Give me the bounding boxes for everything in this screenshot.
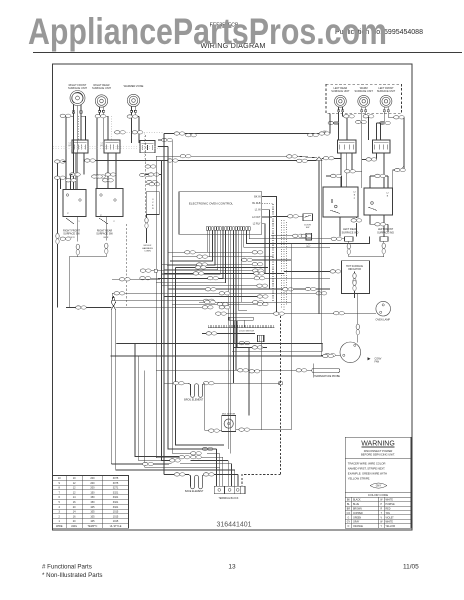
- svg-text:NAMED FIRST, STRIPE NEXT.: NAMED FIRST, STRIPE NEXT.: [348, 467, 386, 471]
- wires warm unit: [361, 112, 363, 122]
- wire to oven lamp: [216, 313, 376, 315]
- connector under B4: [375, 223, 386, 226]
- wire fan left: [321, 354, 340, 356]
- wire right vertical x400: [403, 117, 405, 166]
- dotted wire x111: [111, 116, 113, 140]
- dotted wire x144: [144, 134, 146, 160]
- dotted harness bundle right of EOC: [281, 220, 283, 308]
- wire S4 to B3: [346, 153, 348, 187]
- svg-text:3321: 3321: [113, 496, 119, 499]
- junction node broil: [279, 382, 282, 385]
- wire S3 right lower to trunk: [158, 146, 168, 148]
- svg-text:AppliancePartsPros.com: AppliancePartsPros.com: [28, 10, 387, 52]
- svg-text:BLACK: BLACK: [353, 499, 361, 502]
- svg-text:150: 150: [90, 501, 95, 504]
- dotted wire x78: [78, 116, 80, 140]
- bus row y256: [172, 256, 273, 258]
- bus row y259: [247, 259, 291, 261]
- door switch connector: [288, 215, 299, 218]
- connector bus264 b: [197, 263, 208, 266]
- warm surface unit element: [358, 95, 370, 107]
- wire TB drops: [215, 449, 217, 470]
- broil element: [189, 383, 191, 395]
- connector under S2 A: [95, 175, 106, 178]
- faint dotted guide lines: [53, 146, 160, 148]
- connector under S2 B: [105, 173, 116, 176]
- wire x135 drop: [135, 344, 179, 457]
- svg-text:105: 105: [90, 520, 95, 523]
- connector lower left: [76, 306, 87, 309]
- connector under B2 vertical: [105, 217, 107, 241]
- svg-text:GREEN: GREEN: [353, 517, 362, 519]
- svg-text:L1 IN: L1 IN: [255, 209, 261, 212]
- wire lower left horizontal: [66, 307, 111, 309]
- svg-text:BL DLB: BL DLB: [252, 202, 261, 205]
- connector under B1 vertical: [77, 217, 79, 242]
- connector bake left: [174, 473, 185, 476]
- svg-text:TEMP°C: TEMP°C: [88, 525, 98, 528]
- connector bus289 a: [205, 288, 216, 291]
- connector bus293 right: [316, 292, 327, 295]
- convection fan motor: [340, 342, 361, 363]
- bus row y273: [164, 272, 284, 274]
- svg-text:O: O: [348, 526, 350, 528]
- connector run B: [186, 134, 197, 137]
- long run y355: [111, 355, 325, 357]
- wire y158 to S4 drop: [322, 158, 341, 160]
- warmer zone element: [127, 94, 139, 106]
- right trunk x319: [318, 161, 320, 314]
- connector bottom f: [191, 452, 202, 455]
- connector warm B: [356, 120, 367, 123]
- svg-text:AWG: AWG: [71, 525, 77, 528]
- wire probe feed: [164, 369, 312, 371]
- wire EOC L2 RLY: [262, 224, 265, 274]
- svg-text:3075: 3075: [113, 477, 119, 480]
- svg-text:200: 200: [90, 477, 95, 480]
- wire broil feed left: [164, 382, 168, 384]
- connector bus289 b: [283, 288, 294, 291]
- EOC pin drop wires long: [227, 230, 229, 449]
- wires left front unit: [383, 112, 385, 123]
- color code table: [345, 496, 411, 498]
- wire x110 drop: [110, 310, 112, 465]
- connector bus289: [305, 287, 316, 290]
- wire y474 run: [210, 473, 239, 475]
- connector S1 lower: [55, 176, 66, 179]
- long run y370 thick: [156, 369, 164, 371]
- connector run A: [174, 132, 185, 135]
- left front indicator connector vertical: [383, 241, 385, 243]
- svg-text:DOOR: DOOR: [304, 225, 311, 227]
- connector x154 C: [149, 183, 160, 186]
- connector dotted run a: [115, 131, 126, 134]
- svg-text:TRACER WIRE: WIRE COLOR: TRACER WIRE: WIRE COLOR: [348, 462, 386, 466]
- connector B1 bottom left: [56, 233, 59, 244]
- connector y156 mid: [180, 155, 191, 158]
- svg-text:BLUE: BLUE: [353, 504, 359, 506]
- svg-text:COPPER: COPPER: [353, 513, 363, 515]
- bus row y285: [161, 285, 268, 287]
- connector left rear B: [328, 121, 339, 124]
- hot surface indicator connector: [354, 272, 356, 274]
- wire EOC L2 OUT: [262, 216, 288, 219]
- svg-text:TAN: TAN: [386, 512, 391, 515]
- svg-text:GY: GY: [347, 522, 351, 524]
- switch S3 warmer: [140, 141, 155, 153]
- bus row y304: [172, 303, 268, 305]
- connector S3 right: [162, 138, 173, 141]
- connector bus300: [203, 299, 214, 302]
- left rear indicator lamp: [345, 237, 354, 242]
- trunk wire x172: [172, 257, 192, 454]
- junction arrow right runs: [316, 157, 322, 161]
- svg-text:VIOLET: VIOLET: [386, 517, 395, 519]
- connector bus270 left: [140, 269, 151, 272]
- svg-text:316441401: 316441401: [217, 521, 252, 528]
- wire S2 bottom leads: [107, 153, 109, 189]
- switch S4 left rear: [338, 140, 357, 153]
- svg-text:L2 OUT: L2 OUT: [252, 216, 261, 219]
- svg-text:RED: RED: [386, 508, 391, 510]
- connector left front B: [380, 121, 391, 124]
- temperature probe: [312, 364, 314, 378]
- connector left rear A: [344, 115, 355, 118]
- trunk x291 right: [290, 252, 292, 429]
- svg-text:105: 105: [90, 511, 95, 514]
- svg-text:TERMINAL BLOCK: TERMINAL BLOCK: [219, 497, 239, 500]
- svg-text:105: 105: [90, 515, 95, 518]
- right rear surface switch B2: [96, 189, 123, 217]
- wire stub y184: [146, 183, 160, 185]
- wires left rear unit: [338, 112, 340, 123]
- connector lock a: [239, 341, 250, 344]
- connector oven lamp: [334, 312, 345, 315]
- connector right front unit: [60, 114, 71, 117]
- connector bus270 right: [253, 269, 264, 272]
- connector bus273 a: [193, 272, 204, 275]
- bus row y293: [112, 292, 325, 294]
- connector bus307 b: [219, 306, 230, 309]
- svg-text:GRAY: GRAY: [353, 521, 360, 524]
- warning box: [345, 437, 411, 528]
- connector left of B4: [375, 174, 386, 177]
- left rear surface switch B3: [323, 187, 358, 217]
- switch S1 right front: [72, 140, 88, 153]
- trunk wire x167: [168, 252, 202, 449]
- connector bus279: [119, 278, 130, 281]
- svg-text:SURFACE SW: SURFACE SW: [96, 233, 113, 236]
- wire S1 to B1 left: [60, 178, 62, 189]
- connector bus304 b: [217, 302, 228, 305]
- dotted run y132: [114, 131, 164, 133]
- wire x116 hookup: [110, 355, 112, 357]
- bus row y270: [146, 270, 262, 272]
- trunk wire x156: [156, 156, 179, 457]
- wire horizontal y160 run: [95, 160, 300, 162]
- connector y160 right: [297, 159, 308, 162]
- svg-text:3321: 3321: [113, 491, 119, 494]
- connector y160 mid: [167, 159, 178, 162]
- connector bus293 mid: [219, 292, 230, 295]
- connector left front A: [394, 116, 405, 119]
- wire S1 bottom leads: [75, 153, 77, 189]
- twist crossover: [111, 303, 115, 310]
- dashed enclosure left surface units: [326, 84, 402, 113]
- svg-text:BAKE ELEMENT: BAKE ELEMENT: [185, 490, 204, 493]
- svg-text:FAN: FAN: [375, 361, 380, 364]
- warning divider: [345, 458, 411, 460]
- svg-text:LOCK SWITCH: LOCK SWITCH: [239, 331, 255, 333]
- svg-text:150: 150: [90, 496, 95, 499]
- connector B3 upper: [345, 170, 356, 173]
- header rule line: [33, 52, 462, 54]
- connector lock feed: [206, 332, 217, 335]
- wire warmer zone leads: [130, 113, 132, 144]
- bus row y300: [112, 300, 215, 302]
- connector lamp wire b: [274, 312, 285, 315]
- svg-text:G: G: [348, 517, 350, 519]
- connector bus307: [202, 306, 213, 309]
- svg-text:ORANGE: ORANGE: [353, 525, 363, 528]
- wire right front unit leads: [73, 113, 75, 116]
- left rear indicator connector vertical: [348, 241, 350, 243]
- connector y158: [323, 157, 334, 160]
- connector lock b: [252, 346, 263, 349]
- svg-text:200: 200: [90, 487, 95, 490]
- wire motor left drop: [204, 383, 206, 430]
- wire B3 bottom drops: [339, 217, 341, 237]
- connector probe c: [296, 369, 307, 372]
- label conv fan: [368, 357, 371, 360]
- wire lock to motor a: [248, 347, 250, 415]
- wire top long run y133.5: [164, 133, 330, 135]
- svg-text:BROWN: BROWN: [353, 508, 362, 510]
- connector fan left: [325, 354, 336, 357]
- right front surface unit element: [70, 91, 85, 106]
- connector bus278 right: [254, 277, 265, 280]
- left front surface unit element: [380, 95, 392, 107]
- wire horizontal y156 run: [159, 155, 287, 157]
- connector bus267: [195, 266, 206, 269]
- left rear surface unit element: [335, 95, 347, 107]
- svg-text:PLT: PLT: [307, 243, 312, 245]
- svg-text:BK IN: BK IN: [254, 195, 261, 198]
- svg-text:150: 150: [90, 491, 95, 494]
- bus row y279 left: [112, 278, 160, 280]
- connector bus256: [197, 255, 208, 258]
- wire B1 B2 join: [69, 256, 106, 258]
- wire right rear unit leads: [98, 113, 100, 117]
- bus row y278: [146, 277, 330, 279]
- wire EOC BL out: [262, 203, 273, 302]
- connector bus264: [252, 263, 263, 266]
- connector B1 bottom mid: [60, 237, 71, 240]
- svg-text:OVEN LAMP: OVEN LAMP: [376, 318, 391, 321]
- svg-text:* Non-Illustrated Parts: * Non-Illustrated Parts: [42, 572, 103, 579]
- connector under S3 a: [140, 173, 151, 176]
- oven relay board box: [146, 192, 159, 215]
- svg-text:EXAMPLE: GREEN WIRE WITH: EXAMPLE: GREEN WIRE WITH: [348, 472, 387, 476]
- wire gauge table: [53, 476, 129, 529]
- color code divider: [345, 491, 411, 493]
- connector bus259: [242, 258, 253, 261]
- right front surface switch B1: [63, 190, 86, 217]
- connector left of B3: [331, 174, 342, 177]
- connector under S5: [366, 158, 377, 161]
- EOC pin drop wires right fan: [239, 230, 247, 310]
- connector bake right: [203, 473, 214, 476]
- dashed harness line x126: [125, 224, 127, 307]
- svg-text:COLOR CODE: COLOR CODE: [368, 493, 388, 497]
- svg-text:1015: 1015: [113, 511, 119, 514]
- switch S2 right rear: [104, 140, 120, 153]
- svg-text:MOLEX: MOLEX: [144, 245, 152, 247]
- svg-text:105: 105: [90, 506, 95, 509]
- svg-text:L2 RLY: L2 RLY: [253, 223, 261, 226]
- connector run D: [319, 132, 330, 135]
- bus row y302 right: [199, 301, 291, 303]
- wire y470 run: [216, 469, 234, 471]
- svg-text:ELECTRONIC OVEN CONTROL: ELECTRONIC OVEN CONTROL: [189, 201, 234, 205]
- mdl motor: [222, 416, 236, 432]
- connector mid x97: [92, 175, 103, 178]
- svg-text:BK: BK: [347, 500, 351, 502]
- connector x150 A: [145, 165, 156, 168]
- connector bus302 b: [253, 301, 264, 304]
- svg-text:SURFACE UNIT: SURFACE UNIT: [92, 86, 111, 90]
- svg-text:200: 200: [90, 482, 95, 485]
- connector bottom e: [202, 447, 213, 450]
- svg-text:INDICATOR: INDICATOR: [348, 268, 361, 271]
- connector under S3 b: [147, 180, 158, 183]
- connector bottom b: [191, 456, 202, 459]
- connector warmer zone: [127, 115, 138, 118]
- wire B4 bottom drops: [369, 215, 371, 224]
- connector left rear ind: [331, 237, 342, 240]
- connector motor left: [209, 429, 220, 432]
- bus row y267: [175, 266, 268, 268]
- svg-text:CO: CO: [347, 513, 351, 515]
- EOC pin drop wires left fan: [176, 230, 207, 252]
- connector bus278 mid: [208, 277, 219, 280]
- right rear surface unit element: [95, 95, 107, 107]
- connector x153 B: [148, 173, 159, 176]
- dashed drop x280: [280, 316, 282, 475]
- connector bus302: [205, 301, 216, 304]
- bus row y252: [168, 251, 262, 253]
- right trunk x321: [320, 159, 322, 356]
- wire S3 right to trunk: [158, 139, 172, 141]
- trunk wire x161: [161, 161, 180, 461]
- bus row y271 right: [284, 270, 341, 272]
- svg-text:BR: BR: [347, 508, 351, 510]
- svg-text:RLY: RLY: [306, 246, 311, 248]
- bus row y264: [161, 263, 262, 265]
- wire bottom runs right: [202, 448, 216, 450]
- svg-text:WHITE: WHITE: [386, 500, 394, 502]
- lock plug: [258, 335, 265, 342]
- wire HSI down: [354, 294, 356, 298]
- svg-text:YELLOW: YELLOW: [386, 526, 396, 528]
- connector under S1: [70, 173, 81, 176]
- connector y156 right: [287, 155, 298, 158]
- wire latch verticals: [233, 321, 235, 343]
- svg-text:WHITE: WHITE: [386, 522, 394, 524]
- svg-text:1015: 1015: [113, 515, 119, 518]
- long run y343: [117, 343, 323, 345]
- svg-text:SURFACE IND: SURFACE IND: [377, 231, 394, 234]
- hot surface indicator enclosure: [341, 261, 369, 294]
- connector under S1 right: [85, 159, 96, 162]
- connector bottom d: [170, 459, 181, 462]
- svg-text:3321: 3321: [113, 501, 119, 504]
- svg-text:YELLOW STRIPE.: YELLOW STRIPE.: [348, 477, 371, 481]
- connector bus252 b: [252, 251, 263, 254]
- left front surface switch B4: [364, 188, 393, 215]
- electronic oven control box: [179, 192, 262, 235]
- wire left edge drop: [57, 162, 59, 308]
- svg-text:WIRE: WIRE: [56, 525, 63, 528]
- connector bus296: [257, 295, 268, 298]
- door switch: [303, 214, 313, 221]
- svg-text:PURPLE: PURPLE: [386, 504, 396, 506]
- connector left edge: [55, 160, 66, 163]
- connector fan vertical: [356, 324, 359, 335]
- wire right front lead down: [73, 116, 75, 189]
- connector bus273 b: [254, 272, 265, 275]
- svg-text:BEFORE SERVICING UNIT.: BEFORE SERVICING UNIT.: [361, 453, 395, 457]
- wire stub y174: [146, 174, 162, 176]
- wire stub y166: [146, 166, 156, 168]
- trunk wire x163.8: [164, 134, 172, 464]
- svg-text:3321: 3321: [113, 506, 119, 509]
- plate relay connectors: [293, 234, 304, 237]
- oven lamp: [376, 301, 391, 316]
- connector bottom c: [143, 462, 154, 465]
- lock switch comb: [208, 327, 275, 329]
- connector warm A: [363, 115, 374, 118]
- svg-text:SURFACE UNIT: SURFACE UNIT: [355, 90, 374, 93]
- bus row y289 right: [168, 288, 330, 290]
- connector bus285: [257, 284, 268, 287]
- svg-text:TEMPERATURE PROBE: TEMPERATURE PROBE: [314, 375, 340, 378]
- svg-text:GN/Y: GN/Y: [376, 486, 382, 488]
- svg-text:# Functional Parts: # Functional Parts: [42, 564, 92, 571]
- connector under S2 low: [103, 179, 114, 182]
- connector under B3: [351, 219, 362, 222]
- wire indicator join loop: [349, 256, 384, 258]
- svg-text:SURFACE UNIT: SURFACE UNIT: [68, 86, 87, 90]
- svg-text:3271: 3271: [113, 487, 119, 490]
- bus row y296: [164, 296, 268, 298]
- svg-text:SURFACE UNIT: SURFACE UNIT: [377, 90, 396, 93]
- svg-text:CONN: CONN: [144, 251, 151, 253]
- left front indicator lamp: [380, 237, 388, 242]
- connector bus271: [330, 270, 341, 273]
- latch cam bar: [229, 317, 253, 320]
- svg-text:13: 13: [228, 564, 236, 571]
- tracer example symbol: [370, 483, 387, 488]
- molex connector vertical: [146, 214, 148, 217]
- svg-text:BROIL ELEMENT: BROIL ELEMENT: [184, 399, 204, 402]
- svg-text:SURFACE UNIT: SURFACE UNIT: [331, 90, 350, 93]
- connector bus293 left: [114, 292, 125, 295]
- wire lock to motor b: [261, 342, 263, 430]
- dashed run y351: [232, 350, 323, 352]
- wire fan vertical: [357, 294, 359, 304]
- bus row y307: [116, 306, 208, 308]
